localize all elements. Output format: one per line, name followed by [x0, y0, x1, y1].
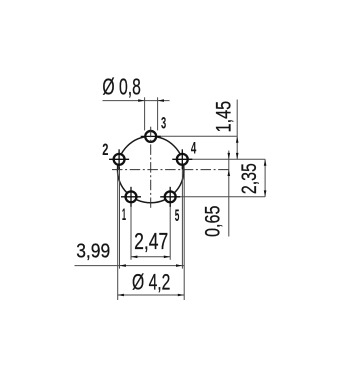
- arrow 3,99 left: [120, 264, 126, 267]
- arrow 0,65 lower: [228, 170, 231, 176]
- pin 5 contact: [160, 187, 180, 207]
- label pin 4: [191, 139, 197, 158]
- svg-text:2,47: 2,47: [134, 228, 168, 254]
- extension line e10 (circle left edge): [117, 172, 119, 301]
- svg-text:2,35: 2,35: [238, 163, 261, 194]
- svg-text:3,99: 3,99: [76, 240, 110, 263]
- label 2,35: [238, 163, 261, 194]
- dimension line 2,35: [264, 159, 266, 197]
- svg-text:4: 4: [191, 139, 197, 158]
- extension line e2 (pin3 right edge, Ø0,8): [157, 97, 159, 130]
- arrow Ø4,2 left: [118, 294, 124, 297]
- arrow 2,47 left: [131, 256, 137, 259]
- extension line e7 (below pin5): [169, 205, 171, 260]
- svg-text:Ø 4,2: Ø 4,2: [132, 270, 170, 295]
- arrow 3,99 right: [176, 264, 182, 267]
- svg-text:5: 5: [175, 206, 180, 225]
- extension line e9 (below pin4): [181, 167, 183, 268]
- pin 2 contact: [109, 149, 129, 169]
- arrow Ø0,8 left: [138, 99, 144, 102]
- label pin 2: [102, 140, 108, 159]
- label Ø 0,8: [102, 74, 141, 100]
- arrow 1,45 top: [236, 136, 239, 142]
- extension line e5 (pin1/5 center height): [177, 196, 266, 198]
- arrow 2,47 right: [164, 256, 170, 259]
- svg-text:2: 2: [102, 140, 108, 159]
- label pin 1: [122, 205, 126, 224]
- horizontal centerline (through circle center): [112, 169, 229, 171]
- label 3,99: [76, 240, 110, 263]
- vertical centerline (through pin 3 and circle center): [150, 127, 152, 208]
- arrow Ø4,2 right: [178, 294, 184, 297]
- pin 3 contact: [141, 131, 161, 142]
- extension line e8 (below pin2): [119, 167, 121, 268]
- dimension line Ø4,2: [118, 294, 185, 296]
- arrow Ø0,8 right: [158, 99, 164, 102]
- svg-text:1: 1: [122, 205, 126, 224]
- extension line e11 (circle right edge): [183, 172, 185, 301]
- label 1,45: [213, 101, 236, 133]
- arrow 1,45 bottom: [236, 153, 239, 159]
- arrow 0,65 upper: [228, 153, 231, 159]
- extension line e6 (below pin1): [130, 205, 132, 260]
- arrow 2,35 top: [264, 159, 267, 165]
- svg-text:1,45: 1,45: [213, 101, 236, 133]
- label 2,47: [134, 228, 168, 254]
- pin 4 contact: [172, 149, 192, 169]
- label pin 3: [161, 114, 166, 133]
- dimension line Ø0,8: [103, 100, 170, 102]
- label pin 5: [175, 206, 180, 225]
- label Ø 4,2: [132, 270, 170, 295]
- svg-text:Ø 0,8: Ø 0,8: [102, 74, 141, 100]
- dimension line 2,47: [131, 256, 170, 258]
- connector face circle (bolt circle Ø4.2): [118, 136, 184, 202]
- svg-text:0,65: 0,65: [202, 206, 225, 238]
- dimension line 1,45: [236, 100, 238, 160]
- dimension line 0,65: [228, 151, 230, 237]
- pin 1 contact: [121, 187, 141, 207]
- svg-text:3: 3: [161, 114, 166, 133]
- arrow 2,35 bottom: [264, 190, 267, 196]
- extension line e1 (pin3 left edge, Ø0,8): [144, 97, 146, 130]
- dimension line 3,99: [75, 265, 185, 267]
- extension line e4 (pin2/4 center height): [189, 158, 265, 160]
- label 0,65: [202, 206, 225, 238]
- extension line e3 (pin3 center height): [157, 135, 237, 137]
